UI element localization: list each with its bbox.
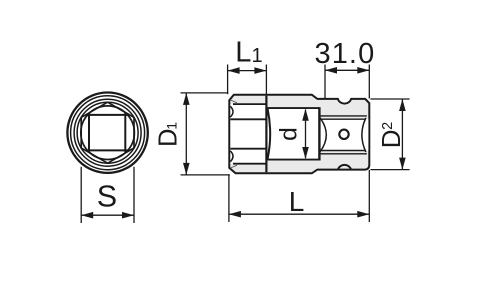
square hole white window — [320, 119, 368, 150]
hex corner arc top — [230, 106, 233, 117]
d arrow up — [302, 109, 309, 121]
S extension line left — [80, 167, 82, 223]
hex flat line top-1 — [233, 103, 266, 105]
hex corner arc bottom — [230, 151, 233, 162]
step line hex/d — [265, 96, 267, 173]
31.0 arrow left — [325, 67, 337, 74]
d-bore mouth chamfer arc — [268, 109, 271, 159]
d-bore end wall — [318, 107, 320, 160]
chamfer circle 3 — [74, 99, 141, 166]
D2 extension line top — [370, 98, 409, 100]
D1 extension line bottom — [181, 174, 230, 176]
square drive hole right edge — [124, 113, 126, 152]
31.0 extension line left — [324, 65, 326, 100]
d-bore white window — [268, 108, 319, 160]
d arrow down — [302, 147, 309, 159]
hex flat line bottom-1 — [233, 163, 266, 165]
hex flat line bottom-2 — [230, 148, 265, 150]
D2 arrow down — [399, 158, 406, 170]
chamfer circle 2 — [71, 96, 145, 170]
square hole bottom edge lines — [319, 150, 365, 152]
L arrow right — [357, 211, 369, 218]
svg-text:L: L — [289, 186, 305, 217]
31.0 dimension line — [325, 69, 369, 71]
L1 extension line left — [227, 65, 229, 95]
d arrow line — [305, 110, 307, 159]
face chamfer arc — [362, 118, 366, 152]
S arrow right — [122, 212, 134, 219]
L1 dimension line — [228, 70, 267, 72]
chamfer inner line top — [231, 100, 238, 103]
hex flat line top-2 — [230, 118, 265, 120]
D1 arrow down — [183, 163, 190, 175]
L1 arrow left — [228, 67, 240, 74]
31.0 extension line right — [368, 65, 370, 99]
D1 dimension line — [185, 93, 187, 175]
L dimension line — [229, 213, 369, 215]
svg-text:1: 1 — [163, 122, 179, 130]
chamfer inner line bottom — [231, 165, 238, 168]
socket body outline — [229, 95, 369, 174]
svg-text:D: D — [155, 129, 183, 147]
hex corner circle — [77, 102, 138, 163]
pin hole — [339, 130, 348, 139]
socket outer circle (D1 outline) — [67, 93, 147, 173]
L extension line left — [228, 174, 230, 222]
svg-text:31.0: 31.0 — [314, 38, 375, 70]
drive groove bump (bottom) — [338, 165, 351, 170]
L1 arrow right — [254, 67, 266, 74]
S dimension line — [81, 214, 134, 216]
square drive hole left edge — [88, 113, 90, 152]
svg-text:2: 2 — [380, 122, 396, 130]
square hole bottom arc — [320, 118, 327, 153]
d-bore top line — [266, 107, 319, 109]
square hole top edge lines — [319, 115, 367, 117]
D1 extension line top — [181, 92, 229, 94]
D1 arrow up — [183, 93, 190, 105]
L1 extension line right (upper part) — [265, 65, 267, 95]
D2 extension line bottom — [370, 169, 409, 171]
svg-text:D: D — [376, 129, 406, 148]
svg-text:S: S — [97, 180, 117, 214]
svg-text:L1: L1 — [235, 37, 262, 69]
D2 arrow up — [399, 99, 406, 111]
square drive hole bottom edge — [86, 149, 130, 151]
L arrow left — [229, 211, 241, 218]
d-bore bottom line — [266, 159, 319, 161]
svg-text:d: d — [276, 127, 303, 141]
S arrow left — [81, 212, 93, 219]
hexagon socket opening — [81, 102, 134, 163]
31.0 arrow right — [357, 67, 369, 74]
L extension line right — [368, 170, 370, 222]
hex inscribed circle — [81, 106, 135, 160]
S extension line right — [133, 167, 135, 223]
hex head white window — [230, 104, 265, 164]
D2 dimension line — [401, 99, 403, 170]
square drive hole top edge — [86, 114, 130, 116]
